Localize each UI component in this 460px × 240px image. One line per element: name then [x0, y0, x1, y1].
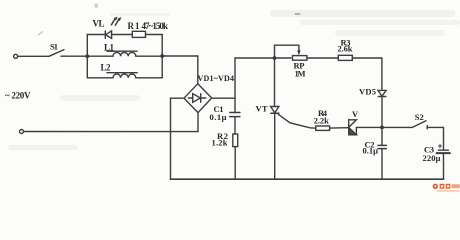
wire — [18, 55, 49, 57]
wire VD5 to junction — [381, 97, 383, 128]
svg-text:S1: S1 — [50, 41, 58, 51]
svg-text:2.2k: 2.2k — [314, 115, 329, 125]
switch S1 — [49, 50, 64, 57]
bridge rectifier VD1~VD4 — [184, 84, 212, 113]
svg-text:47~150k: 47~150k — [142, 21, 169, 31]
svg-text:R1: R1 — [128, 21, 141, 31]
resistor R4 — [316, 126, 330, 130]
wire C2 to bottom rail — [381, 149, 383, 179]
wire bridge right corner to C1 column — [212, 97, 235, 99]
wire — [61, 55, 87, 57]
wire C2 column — [381, 127, 383, 145]
wire bottom rail — [171, 178, 444, 180]
inductor L2 — [87, 74, 162, 78]
node box-right junction — [160, 54, 164, 58]
wire left side of LC box — [86, 35, 88, 78]
diode VD5 — [378, 90, 386, 96]
potentiometer RP — [293, 56, 307, 61]
svg-text:L2: L2 — [101, 63, 112, 73]
wire diac to junction — [356, 126, 382, 128]
wire C1 column top — [234, 58, 236, 112]
svg-text:L1: L1 — [104, 43, 115, 53]
thyristor VT — [271, 107, 279, 114]
wire — [330, 127, 349, 129]
svg-text:0.1μ: 0.1μ — [210, 112, 227, 122]
wire R3 to VD5 — [352, 58, 382, 90]
wire R2 to bottom rail — [234, 147, 236, 180]
wire junction to S2 — [382, 126, 412, 128]
svg-text:~ 220V: ~ 220V — [5, 91, 31, 101]
terminal upper AC input — [14, 54, 18, 58]
wire lower AC line — [24, 131, 198, 133]
capacitor C2 — [378, 145, 386, 148]
wire C3 to bottom rail — [443, 154, 445, 179]
wire bridge left corner — [171, 98, 185, 179]
svg-text:VD5: VD5 — [359, 87, 376, 97]
inductor L2 core bar — [107, 72, 137, 74]
wire — [234, 117, 236, 134]
svg-text:0.1μ: 0.1μ — [363, 146, 379, 156]
svg-text:VD1~VD4: VD1~VD4 — [198, 74, 235, 83]
wire — [111, 34, 132, 36]
svg-text:V: V — [352, 109, 359, 119]
wire top branch left — [87, 34, 105, 36]
capacitor C3 — [437, 150, 450, 153]
inductor L1 core bar — [107, 50, 137, 52]
capacitor C1 — [230, 113, 240, 117]
svg-text:VL: VL — [93, 19, 105, 29]
svg-text:220μ: 220μ — [423, 153, 441, 163]
wire VT column top — [274, 58, 276, 106]
svg-text:2.6k: 2.6k — [338, 44, 353, 54]
LED VL — [105, 17, 121, 39]
wire to bridge top — [162, 56, 198, 84]
wire RP wiper link — [275, 45, 299, 58]
wire S2 to C3 column — [427, 127, 443, 149]
resistor R3 — [338, 55, 352, 60]
svg-text:VT: VT — [256, 104, 268, 114]
svg-text:1.2k: 1.2k — [212, 138, 228, 148]
wire top DC rail — [235, 57, 291, 59]
wire — [146, 34, 163, 36]
inductor L1 — [87, 52, 162, 56]
capacitor C3 plus sign — [438, 144, 441, 147]
diac V — [349, 120, 357, 135]
wire — [307, 57, 338, 59]
node RP junction — [273, 56, 277, 60]
node box-left junction — [85, 54, 89, 58]
scan smudges (decorative) — [8, 4, 460, 151]
resistor R1 — [132, 31, 145, 37]
switch S2 — [412, 121, 427, 129]
wire VT cathode to bottom rail — [274, 113, 276, 179]
wire right side of LC box — [161, 35, 163, 78]
wire bridge bottom corner to AC line — [197, 113, 199, 132]
terminal lower AC input — [20, 130, 24, 134]
watermark logo bottom right — [433, 184, 460, 192]
node trigger junction — [380, 126, 384, 130]
potentiometer RP wiper arrow — [297, 51, 300, 56]
wire VT gate diagonal — [278, 114, 316, 128]
svg-text:1M: 1M — [295, 69, 306, 79]
svg-text:S2: S2 — [415, 112, 424, 122]
resistor R2 — [233, 134, 238, 147]
